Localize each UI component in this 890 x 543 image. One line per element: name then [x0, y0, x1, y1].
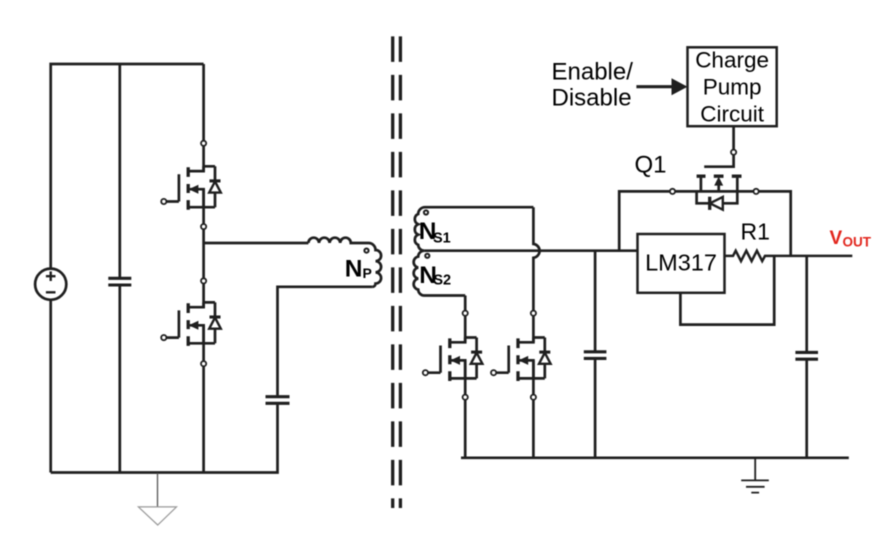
svg-text:R1: R1 [741, 218, 770, 244]
svg-text:Charge: Charge [695, 48, 769, 73]
svg-text:Circuit: Circuit [700, 102, 765, 127]
svg-text:Pump: Pump [703, 75, 762, 100]
svg-text:V: V [830, 228, 843, 249]
svg-text:N: N [345, 256, 363, 283]
svg-text:P: P [363, 265, 372, 281]
svg-text:S1: S1 [433, 231, 451, 247]
svg-text:S2: S2 [433, 273, 451, 289]
svg-text:OUT: OUT [843, 235, 872, 250]
svg-text:Q1: Q1 [635, 152, 667, 179]
svg-text:LM317: LM317 [645, 250, 717, 276]
svg-text:Disable: Disable [552, 85, 632, 112]
svg-text:Enable/: Enable/ [552, 58, 634, 85]
